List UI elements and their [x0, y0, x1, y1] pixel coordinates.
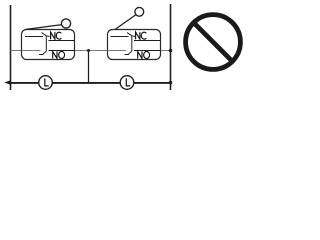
LS1 body — [22, 30, 75, 60]
LS2 NC label — [136, 32, 140, 39]
LS1 com feed line — [22, 50, 41, 52]
prohibition ring — [186, 15, 241, 70]
LS2 blade foot diagonal — [129, 51, 133, 54]
node arrow at left rail — [4, 80, 10, 85]
prohibition sign — [186, 15, 241, 70]
LS2 common bar — [111, 36, 129, 38]
LS1 blade foot diagonal — [43, 51, 47, 54]
LS2 com feed line — [108, 50, 127, 52]
wire junction drop to bottom wire — [88, 51, 90, 84]
LS1 NO label — [53, 51, 57, 58]
wire LS2 NO to right rail — [160, 50, 171, 52]
LS1 pivot stub — [46, 35, 49, 38]
wire rail to switch LS1 — [11, 50, 23, 52]
LS2 roller — [135, 7, 144, 16]
LS2 actuator diagonal — [127, 33, 132, 36]
LS1 NO contact line — [49, 50, 75, 52]
node junction dot between switches — [87, 49, 90, 52]
LS1 roller — [61, 19, 70, 28]
right power rail — [170, 4, 172, 90]
LS1 lever arm — [26, 25, 62, 30]
node junction dot at right rail upper — [169, 49, 173, 53]
wire LS1 NO to LS2 — [75, 50, 108, 52]
LS2 NO contact line — [134, 50, 160, 52]
LS2 lever arm — [115, 15, 136, 30]
LS1 NC label — [51, 32, 55, 39]
LS1 actuator diagonal — [42, 33, 47, 36]
LS2 NO label — [138, 51, 142, 58]
limit switch LS1 — [22, 19, 75, 60]
bottom wire lamp L2 to right rail — [134, 82, 171, 84]
bottom wire lamp L1 to lamp L2 — [52, 82, 120, 84]
LS1 blade foot bar — [39, 54, 44, 56]
prohibition slash — [194, 23, 233, 62]
left power rail — [10, 5, 12, 90]
lamp L1 — [39, 76, 53, 90]
LS1 NC contact line — [49, 40, 75, 42]
LS2 blade — [131, 36, 133, 51]
limit switch LS2 — [108, 7, 161, 59]
lamp L2 — [120, 76, 134, 90]
LS1 common bar — [25, 36, 43, 38]
LS2 blade foot bar — [125, 54, 130, 56]
LS2 NC contact line — [134, 40, 160, 42]
node junction dot at right rail lower — [169, 81, 173, 85]
LS2 body — [108, 30, 161, 60]
bottom wire left rail to lamp L1 — [11, 82, 39, 84]
LS2 pivot stub — [132, 35, 135, 38]
LS1 blade — [45, 36, 47, 51]
